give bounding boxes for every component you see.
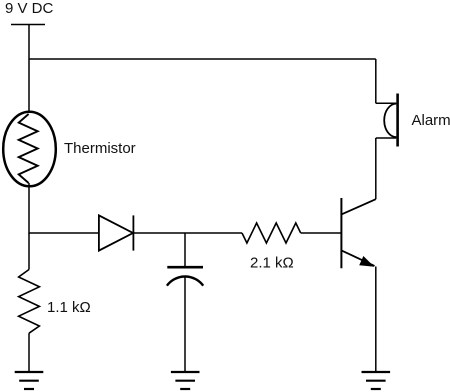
wire resistor R1 to ground (28, 333, 30, 371)
svg-text:9 V DC: 9 V DC (5, 0, 54, 17)
resistor R1 1.1 kOhm (19, 270, 40, 334)
wire thermistor to node A (28, 183, 30, 234)
wire capacitor to ground (184, 277, 186, 372)
transistor Q1 (NPN) (341, 198, 375, 268)
wire alarm top lead (376, 102, 397, 104)
wire emitter down to ground (375, 267, 377, 372)
wire alarm to collector (375, 138, 377, 199)
wire node A to diode anode (29, 232, 99, 234)
svg-text:Thermistor: Thermistor (64, 140, 136, 157)
alarm speaker LS1 (384, 94, 397, 147)
wire alarm bottom lead (376, 137, 397, 139)
power terminal 9V bar (11, 24, 45, 26)
svg-text:Alarm: Alarm (412, 112, 450, 129)
capacitor C1 (167, 267, 203, 286)
resistor R2 2.1 kOhm (242, 223, 301, 243)
ground (emitter) (362, 372, 391, 389)
ground (R1) (15, 372, 44, 389)
svg-text:1.1 kΩ: 1.1 kΩ (47, 299, 91, 316)
svg-text:2.1 kΩ: 2.1 kΩ (250, 255, 294, 272)
thermistor RT1 (3, 112, 56, 187)
diode D1 (99, 215, 133, 250)
ground (capacitor) (171, 372, 200, 389)
wire rail down to alarm (375, 59, 377, 103)
wire down to capacitor (184, 233, 186, 267)
wire diode to resistor R2 (133, 232, 242, 234)
wire top supply rail (29, 58, 376, 60)
wire node A down to resistor R1 (28, 233, 30, 270)
wire resistor R2 to base (301, 232, 341, 234)
wire power terminal to thermistor (28, 25, 30, 114)
